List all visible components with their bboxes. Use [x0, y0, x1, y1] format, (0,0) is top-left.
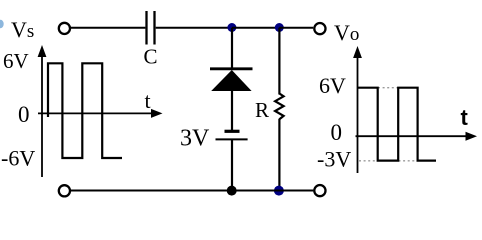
Vs plot vertical axis	[38, 45, 47, 177]
svg-text:R: R	[255, 98, 269, 122]
terminal bottom-left	[59, 185, 70, 196]
label t (Vo plot)	[461, 105, 469, 130]
Vs waveform trace	[48, 63, 122, 158]
svg-text:0: 0	[331, 120, 343, 145]
svg-text:0: 0	[18, 102, 30, 127]
wire top (node A to node B)	[232, 27, 279, 29]
label Vs	[11, 17, 34, 42]
diode D1 (cathode up)	[210, 69, 253, 91]
svg-text:-3V: -3V	[317, 147, 351, 172]
wire top-left (terminal to capacitor)	[71, 27, 146, 29]
node D (resistor bottom junction, navy)	[274, 186, 284, 196]
svg-text:t: t	[461, 105, 469, 130]
terminal bottom-right	[314, 185, 325, 196]
wire bottom rail	[71, 190, 314, 192]
resistor R (zigzag)	[275, 94, 284, 120]
wire top-right (node B to output terminal)	[279, 27, 313, 29]
wire diode to battery	[231, 90, 233, 131]
capacitor C	[147, 11, 155, 45]
label -3V (Vo plot)	[317, 147, 351, 172]
label 6V (Vs plot)	[3, 49, 29, 73]
wire top-middle (capacitor to node A)	[156, 27, 232, 29]
label C	[144, 45, 158, 69]
label Vo	[334, 20, 359, 45]
svg-text:6V: 6V	[319, 73, 346, 98]
svg-text:t: t	[145, 88, 151, 113]
label R	[255, 98, 269, 122]
label t (Vs plot)	[145, 88, 151, 113]
label -6V (Vs plot)	[1, 146, 35, 171]
node C (battery branch junction, black)	[227, 186, 237, 196]
terminal top-right	[314, 23, 325, 34]
label 0 (Vs plot)	[18, 102, 30, 127]
wire diode anode (node A down to diode)	[231, 28, 233, 69]
label 0 (Vo plot)	[331, 120, 343, 145]
battery 3V	[216, 131, 248, 139]
wire resistor top (node B down to resistor)	[278, 28, 280, 95]
svg-text:Vo: Vo	[334, 20, 359, 45]
dotted 6V guide line (Vo plot)	[378, 87, 398, 89]
Vo plot horizontal axis	[356, 132, 478, 141]
wire battery to bottom rail	[231, 139, 233, 190]
label 3V	[180, 126, 210, 152]
dotted -3V guide line (Vo plot)	[359, 160, 418, 162]
node A (diode branch junction, navy)	[227, 23, 236, 32]
Vo waveform trace	[358, 88, 437, 161]
svg-text:Vs: Vs	[11, 17, 34, 42]
bullet fragment at left edge	[0, 20, 4, 28]
node B (resistor branch junction, navy)	[275, 23, 284, 32]
terminal top-left	[59, 23, 70, 34]
svg-text:C: C	[144, 45, 158, 69]
Vo plot vertical axis	[353, 46, 362, 173]
wire resistor bottom	[278, 119, 280, 191]
label 6V (Vo plot)	[319, 73, 346, 98]
svg-text:3V: 3V	[180, 126, 210, 152]
Vs plot horizontal axis	[38, 109, 163, 118]
svg-text:-6V: -6V	[1, 146, 35, 171]
svg-text:6V: 6V	[3, 49, 29, 73]
